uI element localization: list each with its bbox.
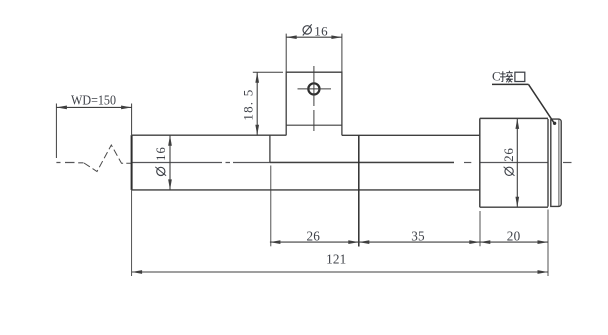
svg-text:WD=150: WD=150 <box>71 93 116 108</box>
WD=150 arrows <box>56 106 67 110</box>
left tube end face (thick) <box>131 135 133 190</box>
mid edge line at axis <box>270 161 454 163</box>
svg-text:26: 26 <box>307 228 321 243</box>
tube bottom edge <box>132 189 480 191</box>
extension under big cylinder left <box>479 211 481 246</box>
dim 20 arrows <box>480 240 491 244</box>
WD=150 left extension <box>55 104 57 159</box>
C-mount ring outline <box>551 119 561 206</box>
dim 26 arrows <box>270 240 281 244</box>
dim 121 arrows <box>132 270 143 274</box>
dimension WD=150 line <box>56 106 131 108</box>
dimension 18.5 line <box>256 72 258 135</box>
tube Ø16 arrows <box>168 135 172 146</box>
svg-text:16: 16 <box>154 146 168 161</box>
top Ø16 arrows <box>286 35 297 39</box>
18.5 arrows <box>255 72 259 83</box>
break squiggle left end <box>84 145 132 172</box>
svg-text:C: C <box>492 68 501 83</box>
tube top edge left of block <box>132 134 287 136</box>
glyph 接 hand-drawn <box>500 71 513 83</box>
glyph 口 hand-drawn <box>515 72 525 81</box>
dimension 121 line <box>132 271 548 273</box>
block inner step line <box>286 124 342 126</box>
boss right step edge merged with extension line <box>358 135 360 246</box>
C接口 leader line <box>492 84 554 122</box>
big cylinder right face <box>547 119 549 207</box>
dimension top Ø16 line <box>286 36 342 38</box>
leader dot <box>553 122 556 125</box>
svg-text:20: 20 <box>507 228 521 243</box>
svg-text:121: 121 <box>326 252 346 267</box>
dimension Ø26 line <box>516 118 518 207</box>
dimension texts <box>71 24 521 267</box>
WD=150 right extension <box>131 104 133 136</box>
hole vertical centerline <box>313 66 315 131</box>
top Ø16 extensions <box>286 34 342 72</box>
dim 35 arrows <box>359 240 370 244</box>
svg-text:16: 16 <box>314 24 328 39</box>
Ø26 arrows <box>515 118 519 128</box>
svg-text:35: 35 <box>411 228 425 243</box>
extension for 26 left <box>270 166 272 247</box>
boss left step edge <box>269 135 271 162</box>
text Ø26 rotated <box>501 147 516 176</box>
centerline main axis <box>56 162 571 164</box>
svg-text:18. 5: 18. 5 <box>241 89 256 121</box>
ring inner line <box>558 119 560 206</box>
hole horizontal crosshair <box>298 88 332 90</box>
tube top edge right of block <box>342 134 480 136</box>
text tube Ø16 rotated <box>154 146 168 176</box>
big cylinder body <box>480 118 548 207</box>
block hole circle <box>308 83 319 94</box>
dimension tube Ø16 line <box>169 135 171 190</box>
extension right end <box>547 210 549 277</box>
mounting block outline <box>286 72 342 135</box>
svg-text:26: 26 <box>501 147 516 162</box>
arrowheads <box>56 35 548 274</box>
18.5 top extension <box>253 71 283 73</box>
bottom dims 26/35/20 line <box>270 241 548 243</box>
text top Ø16 <box>303 24 312 35</box>
extension 121 left <box>131 190 133 276</box>
